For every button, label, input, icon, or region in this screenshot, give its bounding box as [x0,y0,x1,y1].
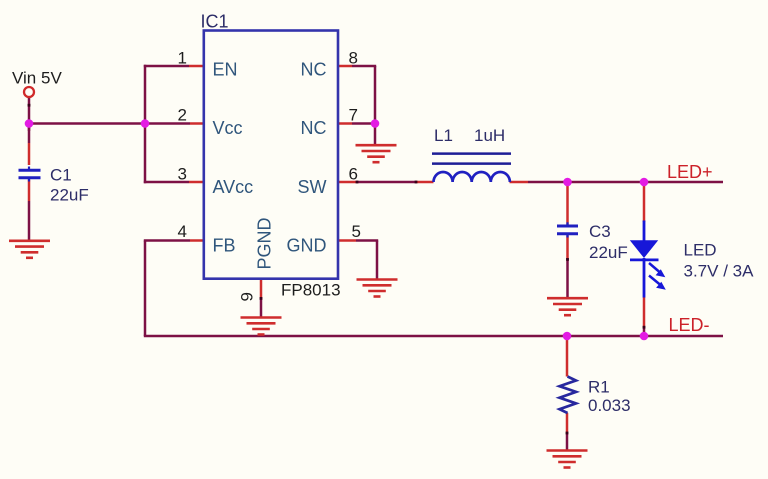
LED bottom lead red [643,297,646,327]
wire FB horizontal [144,239,190,242]
svg-text:IC1: IC1 [201,11,229,31]
wire Vin horizontal to Vcc [28,122,190,125]
inductor L1 left lead red [416,181,434,184]
ground NC net [356,145,397,162]
IC1 body [204,31,338,279]
svg-text:2: 2 [178,106,187,125]
LED light arrow 1 [649,263,665,277]
junction dot C3 top [563,178,572,187]
wire pin7 horizontal [352,122,375,125]
inductor L1 core line upper [432,152,511,155]
ground pin5 GND [357,280,398,297]
junction dot LED top [640,178,649,187]
pin EN red stub [189,65,203,68]
svg-text:Vcc: Vcc [213,118,243,138]
capacitor C3 top lead red [566,183,569,225]
pin AVcc red stub [189,181,203,184]
pin NC8 red stub [339,65,352,68]
svg-text:C1: C1 [50,165,72,184]
wire bottom LED- net [144,335,723,338]
svg-text:6: 6 [349,165,358,184]
wire pin1 horizontal [144,65,189,68]
wire pin5 vertical to ground [376,241,379,280]
wire pin3 horizontal [144,181,189,184]
ground under C3 [547,298,588,315]
wire R1 to ground [566,433,569,451]
capacitor C1 bottom lead red [28,180,31,202]
junction dot LED bottom [640,332,649,341]
svg-text:SW: SW [298,177,327,197]
svg-text:0.033: 0.033 [588,396,631,415]
pin9 end tick [260,297,263,300]
wire LED to LED- net [643,327,646,336]
LED top lead red [643,183,646,222]
wire L1 to LED+ [528,181,723,184]
svg-text:PGND: PGND [255,217,275,269]
svg-text:NC: NC [301,118,327,138]
pin FB red stub [190,239,203,242]
svg-text:7: 7 [349,106,358,125]
svg-text:8: 8 [349,49,358,68]
svg-text:22uF: 22uF [589,243,628,262]
inductor L1 core line lower [432,162,511,165]
svg-text:LED: LED [684,241,717,260]
svg-text:4: 4 [178,222,187,241]
wire pin8 vertical [374,66,377,124]
ground under C1 [9,241,50,258]
pin Vcc red stub [190,122,203,125]
resistor R1 top lead red [566,337,569,377]
svg-text:3: 3 [178,165,187,184]
svg-text:Vin 5V: Vin 5V [12,69,62,88]
svg-text:AVcc: AVcc [213,177,254,197]
svg-text:22uF: 22uF [50,185,89,204]
junction dot NC net [371,119,380,128]
pin NC7 red stub [339,122,352,125]
svg-text:NC: NC [301,60,327,80]
R1 pin end tick [566,432,569,435]
capacitor C1 top lead red [28,143,31,165]
inductor L1 right lead red [510,181,529,184]
junction dot Vin [25,119,34,128]
wire Vin vertical [28,97,31,131]
svg-text:EN: EN [213,60,238,80]
resistor R1 bottom lead red [566,413,569,433]
wire FB vertical [144,241,147,337]
junction dot R1 top [563,332,572,341]
junction dot Vcc bus [141,119,150,128]
pin SW red stub [339,181,357,184]
wire dot to C1 [28,125,31,143]
wire SW to L1 [357,181,416,184]
svg-text:LED-: LED- [669,315,710,335]
LED D1 cathode bar [630,258,659,261]
svg-text:FP8013: FP8013 [281,281,341,300]
svg-text:R1: R1 [588,377,610,396]
svg-text:1: 1 [178,49,187,68]
capacitor C1 plates [19,167,41,182]
svg-text:1uH: 1uH [474,126,505,145]
ground under R1 [547,451,588,468]
pin GND5 red stub [339,239,356,242]
capacitor C3 bottom lead red [566,235,569,259]
port pin end tick [28,104,31,107]
ground pin9 PGND [241,318,282,335]
pin PGND9 red stub [260,280,263,298]
capacitor C3 plates [557,222,578,237]
L1 pin end tick [415,181,418,184]
LED D1 anode lead blue [643,221,646,242]
wire NC net to ground [374,124,377,146]
wire EN-AVcc vertical bus [144,65,147,183]
svg-text:5: 5 [352,222,361,241]
wire pin8 horizontal [352,65,376,68]
C3 pin end tick [566,258,569,261]
svg-text:FB: FB [213,235,236,255]
wire C3 to ground [566,259,569,298]
wire pin9 to ground [260,298,263,318]
inductor L1 coil [434,172,510,182]
svg-text:C3: C3 [589,222,611,241]
svg-text:9: 9 [238,292,257,301]
svg-text:L1: L1 [434,126,453,145]
svg-text:3.7V / 3A: 3.7V / 3A [684,261,755,280]
wire pin5 horizontal [356,239,378,242]
resistor R1 zigzag [560,377,577,414]
svg-text:LED+: LED+ [667,162,713,182]
SW pin end tick [356,181,359,184]
LED D1 cathode lead blue [643,258,646,298]
svg-text:GND: GND [287,235,327,255]
port terminal Vin circle [24,87,34,97]
LED light arrow 2 [649,276,666,290]
wire C1 to ground [28,201,31,241]
LED pin end tick [643,326,646,329]
LED D1 triangle [630,240,658,258]
